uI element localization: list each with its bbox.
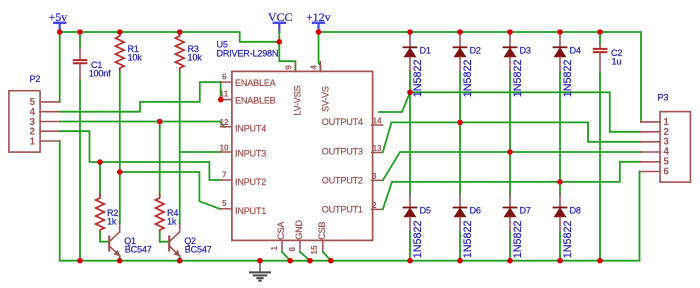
svg-text:SV-VS: SV-VS	[321, 86, 331, 112]
junction OUTPUT2 / D3-D7 column	[507, 149, 513, 155]
svg-text:1k: 1k	[167, 217, 177, 227]
wire OUTPUT4 net to P3.2	[379, 92, 641, 132]
svg-text:13: 13	[373, 144, 383, 153]
wire R4 to Q2 base	[160, 232, 168, 242]
junction R1 top	[117, 29, 123, 35]
svg-text:14: 14	[373, 117, 383, 126]
pin 9 LV-VSS	[285, 62, 303, 116]
wire +5v rail down to P2 pin5	[59, 32, 61, 102]
junction D7 gnd	[507, 258, 513, 264]
wire Q1 emitter to gnd	[119, 258, 121, 261]
diode D5 1N5822	[404, 194, 431, 258]
svg-text:1u: 1u	[612, 57, 622, 67]
svg-text:OUTPUT4: OUTPUT4	[322, 117, 363, 127]
transistor Q2 BC547	[169, 224, 212, 260]
junction OUTPUT1 / D4-D8 column	[557, 179, 563, 185]
svg-text:GND: GND	[294, 220, 304, 240]
svg-text:15: 15	[310, 245, 319, 255]
power +5v	[49, 10, 68, 31]
wire GND pin to gnd bus	[300, 252, 310, 261]
svg-text:D7: D7	[520, 206, 531, 216]
wire gnd bus	[60, 260, 640, 262]
wire +5v bus	[60, 32, 280, 42]
svg-text:BC547: BC547	[125, 245, 152, 255]
pin 10 INPUT3	[220, 143, 267, 158]
svg-text:DRIVER-L298N: DRIVER-L298N	[217, 49, 279, 59]
svg-text:1N5822: 1N5822	[412, 220, 424, 258]
junction C1 top	[77, 29, 83, 35]
wire +12v to pin4 SV-VS	[319, 32, 321, 71]
svg-text:D6: D6	[470, 206, 481, 216]
wire D7 to gnd bus	[509, 232, 511, 261]
svg-text:OUTPUT1: OUTPUT1	[322, 205, 363, 215]
junction D1 top	[407, 29, 413, 35]
wire branch P2.2 net down to R2	[99, 162, 101, 195]
svg-text:1N5822: 1N5822	[462, 220, 474, 258]
diode D3 1N5822	[504, 32, 531, 97]
pin 15 CSB	[310, 222, 327, 255]
pin 1 CSA	[270, 221, 286, 252]
pin 13 OUTPUT3	[322, 144, 383, 156]
wire C2 to gnd bus	[599, 72, 601, 260]
svg-text:CSB: CSB	[317, 222, 327, 240]
svg-text:12: 12	[220, 118, 230, 127]
svg-text:CSA: CSA	[276, 221, 286, 240]
junction D4 top	[557, 29, 563, 35]
op-amp U5 DRIVER-L298N box	[217, 40, 373, 241]
power VCC	[268, 10, 293, 32]
svg-text:OUTPUT2: OUTPUT2	[322, 175, 363, 185]
junction ground symbol	[257, 258, 263, 264]
wire D4 to output1 row and D8	[559, 72, 561, 194]
svg-text:1N5822: 1N5822	[462, 59, 474, 97]
svg-text:100nf: 100nf	[89, 68, 111, 78]
junction D6 gnd	[457, 258, 463, 264]
resistor R1 10k	[116, 32, 143, 72]
wire OUTPUT2 net to P3.4	[383, 152, 641, 180]
junction Q2 emitter gnd	[177, 258, 183, 264]
diode D7 1N5822	[504, 194, 531, 258]
svg-text:6: 6	[222, 72, 227, 81]
wire D6 to gnd bus	[459, 232, 461, 261]
pin 7 INPUT2	[221, 170, 266, 187]
svg-text:1: 1	[30, 136, 36, 147]
svg-text:1k: 1k	[107, 217, 117, 227]
capacitor C2 1u	[594, 32, 623, 72]
svg-text:1N5822: 1N5822	[512, 220, 524, 258]
wire branch P2.3 net down to R4	[159, 122, 161, 195]
svg-text:ENABLEB: ENABLEB	[235, 96, 276, 106]
junction INPUT2 net / R2	[97, 159, 103, 165]
junction ENABLEB	[218, 97, 224, 103]
wire D5 to gnd bus	[409, 232, 411, 261]
svg-text:INPUT1: INPUT1	[235, 206, 266, 216]
connector P3	[640, 93, 691, 183]
junction OUTPUT3 / D2-D6 column	[457, 120, 463, 126]
wire P2.3 to INPUT4	[60, 122, 225, 127]
capacitor C1	[74, 32, 111, 80]
junction OUTPUT4 / D1-D5 column	[407, 90, 413, 96]
diode D2 1N5822	[454, 32, 481, 97]
junction INPUT1 net / R1-Q1	[117, 169, 123, 175]
junction C2 top	[597, 29, 603, 35]
svg-text:2: 2	[372, 201, 377, 210]
P3 pin stubs	[640, 122, 661, 172]
diode D1 1N5822	[404, 32, 431, 97]
svg-text:1N5822: 1N5822	[562, 59, 574, 97]
pin 2 OUTPUT1	[322, 201, 383, 215]
svg-text:D1: D1	[420, 46, 431, 56]
svg-text:9: 9	[285, 65, 294, 70]
junction D8 gnd	[557, 258, 563, 264]
svg-text:10k: 10k	[188, 53, 203, 63]
svg-text:5: 5	[222, 199, 227, 208]
P2 pin stubs	[40, 102, 60, 141]
junction VCC	[277, 39, 283, 45]
resistor R4 1k	[155, 195, 178, 233]
wire Q2 emitter to gnd	[179, 258, 181, 261]
wire R2 to Q1 base	[100, 232, 108, 242]
svg-text:D2: D2	[470, 46, 481, 56]
junction +12v	[316, 29, 322, 35]
svg-text:P3: P3	[658, 93, 669, 103]
svg-text:3: 3	[372, 172, 377, 181]
diode D8 1N5822	[554, 194, 581, 258]
wire branch to INPUT3 pin10	[180, 151, 221, 153]
wire ENABLEA to ENABLEB tie	[220, 82, 222, 100]
junction D2 top	[457, 29, 463, 35]
junction C2 gnd	[597, 258, 603, 264]
svg-text:D5: D5	[420, 206, 431, 216]
pin 3 OUTPUT2	[322, 172, 383, 185]
power +12v	[306, 10, 331, 31]
svg-text:1: 1	[270, 246, 279, 251]
pin 11 ENABLEB	[220, 90, 276, 106]
junction C1 bottom gnd	[77, 258, 83, 264]
junction CSA gnd	[287, 258, 293, 264]
ground symbol	[250, 261, 270, 281]
wire R1 down to Q1 collector net	[119, 72, 121, 224]
svg-text:D3: D3	[520, 46, 531, 56]
wire D1 to output4 row and D5	[409, 72, 411, 194]
wire P3.6 to gnd bus	[639, 172, 641, 261]
svg-text:ENABLEA: ENABLEA	[235, 78, 277, 88]
transistor Q1 BC547	[109, 224, 152, 260]
wire D8 to gnd bus	[559, 232, 561, 261]
svg-text:4: 4	[310, 65, 319, 70]
resistor R3 10k	[175, 32, 202, 72]
wire +12v bus	[319, 32, 642, 122]
svg-text:10: 10	[220, 143, 230, 152]
junction Q1 emitter gnd	[117, 258, 123, 264]
junction INPUT4 net / R4	[157, 119, 163, 125]
wire CSB to gnd bus	[323, 252, 331, 261]
resistor R2 1k	[96, 195, 119, 233]
svg-text:1N5822: 1N5822	[562, 220, 574, 258]
svg-text:D8: D8	[570, 206, 581, 216]
svg-text:LV-VSS: LV-VSS	[293, 85, 303, 115]
diode D6 1N5822	[454, 194, 481, 258]
junction CSB gnd	[328, 258, 334, 264]
pin 8 GND	[288, 220, 304, 252]
wire P2.4 to ENABLEA/ENABLEB	[60, 82, 221, 112]
wire D3 to output2 row and D7	[509, 72, 511, 194]
junction R3 top	[177, 29, 183, 35]
svg-text:OUTPUT3: OUTPUT3	[322, 147, 363, 157]
pin 5 INPUT1	[221, 199, 266, 216]
wire CSA to gnd bus	[282, 252, 290, 261]
svg-text:7: 7	[222, 170, 227, 179]
svg-text:INPUT2: INPUT2	[235, 177, 266, 187]
pin 14 OUTPUT4	[322, 117, 383, 127]
svg-text:INPUT4: INPUT4	[235, 124, 266, 134]
junction D3 top	[507, 29, 513, 35]
wire VCC to pin9	[279, 31, 295, 72]
svg-text:INPUT3: INPUT3	[235, 149, 266, 159]
pin 6 ENABLEA	[221, 72, 277, 88]
svg-text:8: 8	[288, 247, 297, 252]
wire OUTPUT1 net to P3.5	[383, 162, 641, 209]
wire C1 to gnd bus	[79, 80, 81, 261]
svg-text:1N5822: 1N5822	[412, 59, 424, 97]
diode D4 1N5822	[554, 32, 581, 97]
wire OUTPUT3 net to P3.3	[383, 122, 641, 152]
svg-text:BC547: BC547	[185, 245, 212, 255]
wire P2.2 to INPUT2	[60, 131, 221, 180]
wire INPUT1 net from R1/Q1 collector	[120, 172, 221, 209]
svg-text:1N5822: 1N5822	[512, 59, 524, 97]
junction D5 gnd	[407, 258, 413, 264]
junction P2.5/+5v rail	[57, 29, 63, 35]
svg-text:6: 6	[663, 166, 669, 177]
wire P2.1 to gnd bus	[59, 141, 61, 261]
wire R3 down to Q2 collector net	[179, 72, 181, 224]
pin 4 SV-VS	[310, 62, 331, 113]
wire D2 to output3 row and D6	[459, 72, 461, 194]
svg-text:D4: D4	[570, 46, 581, 56]
connector P2	[9, 74, 60, 152]
svg-text:10k: 10k	[128, 53, 143, 63]
svg-text:P2: P2	[30, 74, 41, 84]
pin 12 INPUT4	[220, 118, 267, 133]
junction GND pin gnd	[307, 258, 313, 264]
